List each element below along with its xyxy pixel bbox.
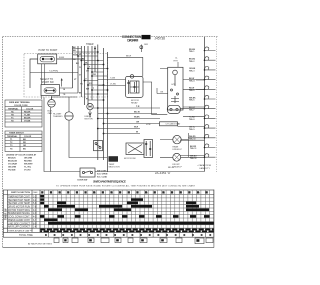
svg-text:RD-W: RD-W (168, 167, 175, 169)
chart row lines (7, 198, 213, 225)
notes block (6, 154, 37, 172)
wire buzzer top (52, 97, 78, 100)
bus tie wires (73, 49, 108, 101)
heater element box (160, 122, 178, 126)
svg-text:W: W (79, 54, 81, 56)
svg-text:MOTOR SW: MOTOR SW (124, 158, 136, 160)
svg-text:W-BK: W-BK (73, 54, 79, 56)
svg-text:OR: OR (136, 122, 140, 124)
svg-text:N.C. CLSD: N.C. CLSD (97, 177, 108, 179)
wires motor area to right (89, 108, 160, 134)
svg-text:LT-BU: LT-BU (110, 84, 116, 86)
svg-text:LINE SIDE CONTACT: LINE SIDE CONTACT (8, 222, 31, 225)
wire thermostat up (68, 97, 70, 112)
thermostat T1 (65, 112, 73, 120)
svg-text:35: 35 (94, 193, 96, 195)
svg-text:GY-GRAY: GY-GRAY (8, 163, 18, 166)
svg-text:45: 45 (111, 193, 113, 195)
wire labels mid (134, 106, 140, 134)
svg-text:TML 6: TML 6 (189, 100, 194, 102)
bus hook junction dots (204, 50, 206, 158)
svg-text:RELAY: RELAY (131, 101, 138, 104)
svg-text:BU-BK: BU-BK (24, 117, 31, 119)
svg-text:HEATER HIGH TEMP: HEATER HIGH TEMP (8, 199, 30, 202)
svg-text:TML 4: TML 4 (189, 79, 195, 82)
svg-text:THERMO: THERMO (53, 116, 63, 118)
svg-text:SELECTOR: SELECTOR (109, 166, 121, 168)
svg-text:SWITCH AND TIMER SEQUENCE: SWITCH AND TIMER SEQUENCE (93, 179, 126, 183)
wire door switch rail (44, 97, 205, 171)
svg-text:AT MIDPOINT SETTING: AT MIDPOINT SETTING (28, 243, 52, 246)
rear lamp L1 (173, 135, 181, 143)
wire relay right (143, 82, 157, 115)
connector block CB1 (109, 156, 119, 162)
connector labels right column (189, 49, 197, 160)
wires heater to bus (183, 80, 205, 90)
svg-text:OR-ORN: OR-ORN (24, 158, 33, 160)
buzzer BZ (48, 100, 56, 108)
svg-text:HEATER LOW TEMP: HEATER LOW TEMP (8, 202, 30, 205)
console dashed enclosure (24, 54, 108, 98)
svg-text:RD-BK: RD-BK (24, 111, 31, 113)
wire stat to bus (152, 109, 205, 115)
svg-text:• CAPACITOR: • CAPACITOR (197, 164, 211, 167)
svg-text:TML 7: TML 7 (189, 109, 194, 111)
svg-text:AIR FLUFF CONTACT: AIR FLUFF CONTACT (8, 226, 31, 229)
chart header numbers (42, 193, 200, 195)
svg-text:TML 1: TML 1 (189, 51, 194, 53)
wire start sw left (30, 59, 38, 88)
svg-text:GN-GRN: GN-GRN (8, 167, 17, 169)
svg-text:BU-W: BU-W (134, 112, 140, 114)
svg-text:TML 8: TML 8 (189, 119, 194, 121)
svg-text:BUZZER END SIGNAL: BUZZER END SIGNAL (8, 212, 31, 215)
svg-text:N.O. OPEN: N.O. OPEN (97, 174, 108, 176)
svg-text:TML 12: TML 12 (190, 158, 196, 160)
svg-text:Y-(LPNK): Y-(LPNK) (49, 70, 58, 72)
svg-text:TML 9: TML 9 (189, 129, 194, 131)
bus rung end labels (73, 47, 90, 101)
svg-text:WH-WHT: WH-WHT (24, 164, 33, 166)
total time numbers (45, 234, 213, 236)
timer chart frame (3, 190, 214, 237)
svg-text:SWITCH SECTION: SWITCH SECTION (11, 192, 30, 194)
svg-text:COLOR: COLOR (24, 136, 32, 138)
svg-text:PRESS GUARD CONT.: PRESS GUARD CONT. (8, 219, 30, 222)
svg-text:YL-YEL: YL-YEL (24, 167, 32, 169)
svg-text:95: 95 (198, 193, 200, 195)
svg-text:25: 25 (76, 193, 78, 195)
wire selector to bus (60, 79, 79, 93)
wire Y-LPNK (30, 72, 78, 74)
svg-text:75: 75 (163, 193, 165, 195)
svg-text:W-R: W-R (134, 127, 139, 129)
svg-text:CYCLING STAT: CYCLING STAT (166, 123, 182, 126)
svg-text:MOTOR START WDG: MOTOR START WDG (8, 209, 30, 212)
svg-text:COLOR CODE: COLOR CODE (14, 105, 28, 107)
svg-text:TML 2: TML 2 (189, 61, 194, 63)
timer bus vertical wires (73, 45, 108, 173)
svg-text:TML 11: TML 11 (190, 148, 196, 150)
svg-text:65: 65 (146, 193, 148, 195)
selector switch S2 (41, 85, 60, 96)
door switch S4 (80, 168, 95, 177)
svg-text:GY-BK: GY-BK (24, 120, 31, 122)
svg-text:HTR: HTR (146, 124, 151, 126)
svg-text:CAM: CAM (33, 191, 38, 194)
svg-text:ZER: ZER (48, 113, 53, 115)
svg-text:TERMINAL: TERMINAL (7, 135, 18, 138)
cam closure bars (40, 195, 214, 225)
svg-text:TIMER ADVANCE CAM ▪▪▪▪: TIMER ADVANCE CAM ▪▪▪▪ (8, 229, 33, 232)
svg-text:DRIVE: DRIVE (85, 116, 92, 118)
total time ticks (49, 232, 206, 237)
svg-text:TERMINAL: TERMINAL (8, 107, 19, 110)
svg-text:DRIVE MOTOR RUN: DRIVE MOTOR RUN (8, 207, 30, 209)
svg-text:HTR: HTR (172, 84, 177, 86)
svg-text:W-BK: W-BK (134, 117, 140, 119)
wire selector to buzzer (42, 96, 52, 100)
wires components to right bus (178, 80, 205, 155)
wires console to relay (98, 80, 126, 86)
svg-text:BUZ-: BUZ- (48, 111, 53, 113)
chart row labels (8, 196, 37, 228)
svg-text:5: 5 (42, 193, 43, 195)
svg-text:MOTOR: MOTOR (85, 119, 94, 121)
wire start sw to selector (42, 64, 45, 85)
table 2 text (7, 133, 32, 151)
svg-text:DRUM LP: DRUM LP (173, 167, 183, 169)
svg-text:DIAGRAM: DIAGRAM (127, 39, 138, 43)
svg-text:TIMER: TIMER (86, 43, 94, 46)
svg-text:VT-VIO: VT-VIO (24, 170, 31, 172)
svg-text:SW CONT.: SW CONT. (97, 171, 107, 173)
hanging interval boxes (54, 238, 213, 244)
bus wire labels (73, 50, 96, 90)
svg-text:BK-BLK: BK-BLK (8, 158, 16, 160)
table 1 wire color code (5, 100, 42, 127)
chart header tick digits (41, 191, 213, 193)
push-to-start switch S1 (38, 54, 57, 64)
svg-text:RD-RED: RD-RED (24, 161, 32, 163)
wire thermostat down rail (69, 120, 107, 157)
motor switch box SW2 (144, 140, 153, 158)
stat oval T2 (167, 105, 180, 113)
legend block center (97, 171, 108, 179)
svg-text:PUSH TO START: PUSH TO START (39, 49, 58, 52)
chart grid columns (44, 190, 209, 232)
svg-text:TML 5: TML 5 (189, 90, 194, 92)
svg-text:W: W (136, 132, 138, 134)
wire lamp2 (160, 156, 205, 158)
svg-text:YL-BK: YL-BK (24, 114, 31, 116)
svg-text:J45738: J45738 (155, 37, 166, 41)
wire lamp1 (160, 133, 205, 158)
relay box K1 (126, 75, 144, 98)
svg-text:TIMER MOTOR CONT.: TIMER MOTOR CONT. (8, 196, 30, 198)
motor M1 (87, 103, 93, 109)
svg-text:DRUM LP: DRUM LP (173, 149, 183, 151)
top wire to relay (108, 45, 143, 77)
title CONNECTION DIAGRAM (122, 35, 142, 42)
svg-text:85: 85 (180, 193, 182, 195)
table 2 terminal code (5, 131, 42, 152)
wire heater left (157, 69, 168, 94)
part number plate (142, 35, 151, 39)
svg-text:BU-BLUE: BU-BLUE (8, 161, 18, 163)
svg-text:TO OPERATE TIMER PUSH KNOB IN: TO OPERATE TIMER PUSH KNOB IN AND ROTATE… (56, 185, 196, 188)
front lamp L2 (173, 153, 181, 161)
svg-text:REAR: REAR (173, 146, 179, 149)
table 1 header text (8, 101, 34, 122)
plug P1 (140, 46, 143, 49)
motor switch box SW3 (126, 143, 144, 155)
connector hooks right column (205, 47, 216, 157)
hanging box marks (64, 239, 199, 242)
svg-text:WIRE AND TERMINAL: WIRE AND TERMINAL (9, 101, 31, 104)
svg-text:HI-LIMIT: HI-LIMIT (53, 114, 62, 116)
svg-text:COOL DOWN CONT.: COOL DOWN CONT. (8, 217, 30, 219)
svg-text:TML 3: TML 3 (189, 71, 194, 73)
svg-text:15: 15 (59, 193, 61, 195)
svg-text:COLOR: COLOR (26, 108, 34, 110)
right bus wire (204, 37, 206, 172)
heater box H1 (168, 67, 183, 110)
temp selector box S3 (94, 141, 103, 151)
svg-text:LEGEND OF COLOR CODES AT: LEGEND OF COLOR CODES AT (6, 154, 37, 157)
svg-text:CAPACITY: CAPACITY (199, 167, 210, 170)
svg-text:T-R: T-R (136, 106, 140, 108)
svg-text:START SW: START SW (42, 81, 55, 84)
sheet border (3, 37, 219, 248)
svg-text:TIMER SWITCH: TIMER SWITCH (9, 133, 24, 135)
advance band (40, 230, 213, 232)
svg-text:DOOR SW: DOOR SW (78, 179, 88, 181)
bus junction dots (77, 48, 108, 135)
svg-text:55: 55 (128, 193, 130, 195)
svg-text:TOTAL TIME: TOTAL TIME (19, 234, 33, 237)
svg-text:R-BK: R-BK (59, 57, 65, 59)
svg-text:BK-R: BK-R (126, 55, 132, 57)
svg-text:Y-DB: Y-DB (110, 78, 116, 80)
wire start sw right (57, 58, 85, 60)
svg-text:HTR: HTR (174, 60, 179, 62)
svg-text:TN-TAN: TN-TAN (8, 169, 16, 172)
svg-text:2A-4451 ’A’: 2A-4451 ’A’ (155, 171, 171, 175)
